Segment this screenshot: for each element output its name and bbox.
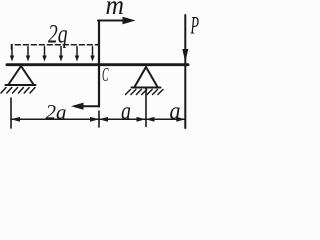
dim arrowhead left of first a (99, 117, 108, 122)
load arrow 2 (26, 47, 30, 62)
right support hatching (126, 90, 163, 95)
dim arrowhead left end (11, 117, 20, 122)
svg-text:m: m (106, 0, 125, 20)
svg-text:a: a (170, 98, 181, 125)
wire couple arm at C (98, 21, 100, 107)
load arrow 6 (90, 47, 94, 62)
svg-text:C: C (102, 64, 109, 86)
dim arrowhead right end (176, 117, 185, 122)
left extension line (10, 98, 12, 128)
left support base (6, 84, 36, 86)
svg-text:a: a (121, 98, 131, 125)
dim arrowhead left of second a (146, 117, 155, 122)
dim arrowhead right of first a (137, 117, 146, 122)
load arrow 4 (59, 47, 63, 62)
extension line at C (98, 111, 100, 127)
svg-text:2a: 2a (46, 100, 67, 124)
moment arrow m (top, right) (98, 17, 136, 25)
left support hatching (1, 88, 35, 94)
svg-text:P: P (190, 13, 199, 40)
left pinned support triangle (9, 66, 34, 85)
load arrow 1 (10, 47, 14, 62)
beam (7, 63, 188, 66)
force P line (184, 15, 186, 128)
load arrow 3 (42, 47, 46, 62)
right roller support triangle (135, 67, 158, 87)
right support base (132, 87, 161, 89)
svg-text:2q: 2q (48, 19, 68, 49)
load arrow 5 (75, 47, 79, 62)
moment couple arrow (bottom, left) (71, 103, 99, 110)
force P arrowhead (182, 49, 188, 62)
dimension line (11, 118, 185, 120)
right support extension line (145, 88, 147, 127)
wire distributed load top dashed line (12, 45, 99, 49)
dim arrowhead right of 2a (90, 117, 99, 122)
